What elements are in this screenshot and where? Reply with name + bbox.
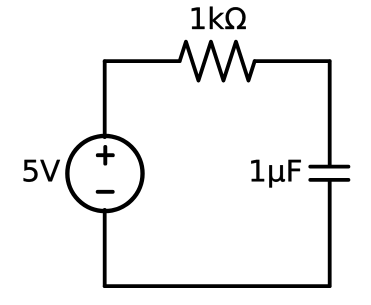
value label 5V (source): [24, 160, 60, 182]
value label 1kOhm (resistor): [192, 7, 246, 29]
wire: capacitor top lead (top-right corner to top plate): [328, 61, 332, 167]
voltage source V (circle body): [67, 136, 142, 211]
wire: bottom return (bottom-right to bottom-left corner): [105, 284, 330, 288]
value label 1uF (capacitor): [251, 160, 301, 188]
wire: capacitor bottom lead (bottom plate to bottom-right corner): [328, 180, 332, 286]
capacitor C bottom plate: [310, 178, 348, 182]
wire: source bottom lead (left wire, circle to bottom-left corner): [103, 210, 107, 286]
wire: top-right segment (resistor to top-right corner): [255, 59, 330, 63]
capacitor C top plate: [310, 165, 348, 169]
resistor R (zigzag body): [180, 42, 255, 81]
voltage source plus sign: [98, 147, 113, 164]
wire: source top lead (left wire, circle to top-left corner): [103, 61, 107, 137]
wire: top-left segment (corner to resistor): [105, 59, 180, 63]
voltage source minus sign: [98, 190, 113, 194]
